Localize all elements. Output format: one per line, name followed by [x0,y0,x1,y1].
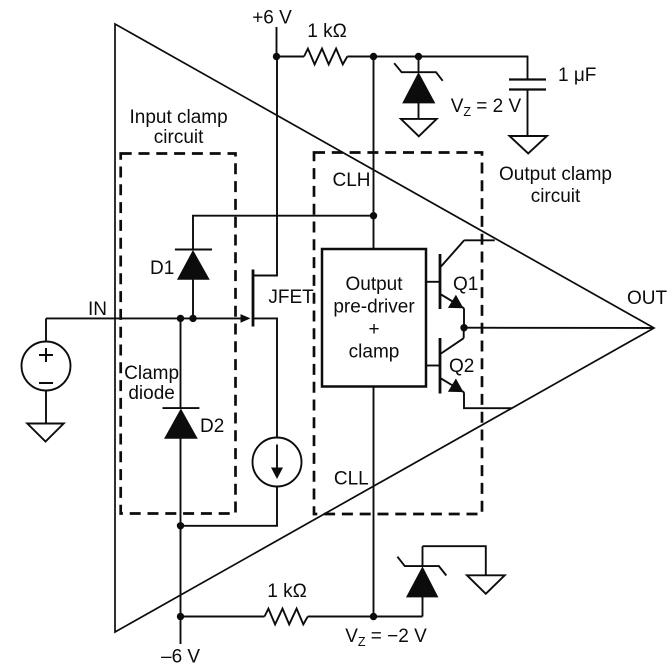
svg-text:OUT: OUT [627,288,668,309]
ground below C1 [510,136,548,154]
node +6V rail junction [273,53,280,60]
svg-text:VZ = 2 V: VZ = 2 V [451,96,522,119]
label Input clamp circuit [129,107,227,148]
diode D1 [150,250,212,319]
node IN / D2 branch [177,315,184,322]
bottom rail wire [181,616,265,618]
wire Z2 to ground [423,546,486,575]
label Output clamp circuit [499,164,612,207]
svg-text:Q2: Q2 [449,356,474,377]
svg-text:Input clamp: Input clamp [129,107,227,128]
wire top rail segment A [277,56,305,58]
bottom rail wire B [308,616,423,618]
node CLH rail tap [370,53,377,60]
wire top rail segment B [347,56,527,58]
svg-text:+6 V: +6 V [252,8,292,29]
svg-text:clamp: clamp [349,342,400,363]
wire D2 bottom rail [180,438,182,644]
svg-text:D2: D2 [200,416,224,437]
input clamp circuit dashed box [121,154,236,514]
output stage dashed box [314,153,482,515]
svg-text:1 μF: 1 μF [558,65,596,86]
svg-text:D1: D1 [150,258,174,279]
capacitor C1 1 µF [509,65,596,90]
svg-text:Output: Output [345,274,403,295]
svg-text:CLH: CLH [333,170,371,191]
resistor R2 1 kΩ [265,581,308,624]
svg-text:pre-driver: pre-driver [333,297,415,318]
ground below source [27,424,63,442]
svg-text:Q1: Q1 [453,274,478,295]
wire CLH horizontal (D1 top to rail) [193,216,374,250]
wire CLH rail vertical [373,57,375,250]
node clamp return junction [177,522,184,529]
wire capacitor to ground [527,90,529,137]
wire OUT [464,327,654,329]
voltage source VS [22,318,71,423]
ground near Z2 [467,575,505,594]
svg-text:CLL: CLL [334,469,369,490]
transistor Q1 [426,240,495,327]
clamp diode D2 [163,408,225,438]
wire IN line [46,317,245,319]
zener diode Z2 [397,546,446,616]
output pre-driver block U1 [322,249,426,387]
svg-text:VZ = −2 V: VZ = −2 V [345,626,427,649]
zener diode Z1 [394,57,443,119]
node IN / D1 branch [189,315,196,322]
label Clamp diode [124,363,179,404]
wire +6V stub [276,27,278,57]
svg-text:diode: diode [128,383,175,404]
JFET Q3 [253,58,314,438]
svg-text:Output clamp: Output clamp [499,164,612,185]
svg-text:circuit: circuit [154,127,204,148]
wire current source return [181,487,278,526]
op-amp body triangle [115,24,654,632]
svg-text:1 kΩ: 1 kΩ [307,21,347,42]
node CLL rail bottom [370,613,377,620]
resistor R1 1 kΩ [304,21,347,64]
svg-text:–6 V: –6 V [161,647,200,668]
wire D2 top [180,318,182,408]
node zener Z1 tap [415,53,422,60]
svg-text:1 kΩ: 1 kΩ [267,581,307,602]
svg-text:IN: IN [88,299,107,320]
node -6V rail [177,613,184,620]
svg-text:JFET: JFET [268,287,314,308]
JFET gate arrow [241,314,251,323]
node CLH junction [370,212,377,219]
wire CLL rail vertical [373,387,375,617]
svg-text:+: + [368,319,379,340]
svg-text:circuit: circuit [531,186,581,207]
wire capacitor drop [527,56,529,80]
node output junction [460,324,467,331]
ground below Z1 [401,119,437,136]
current source I1 [253,438,302,487]
transistor Q2 [426,328,512,409]
svg-text:Clamp: Clamp [124,363,179,384]
